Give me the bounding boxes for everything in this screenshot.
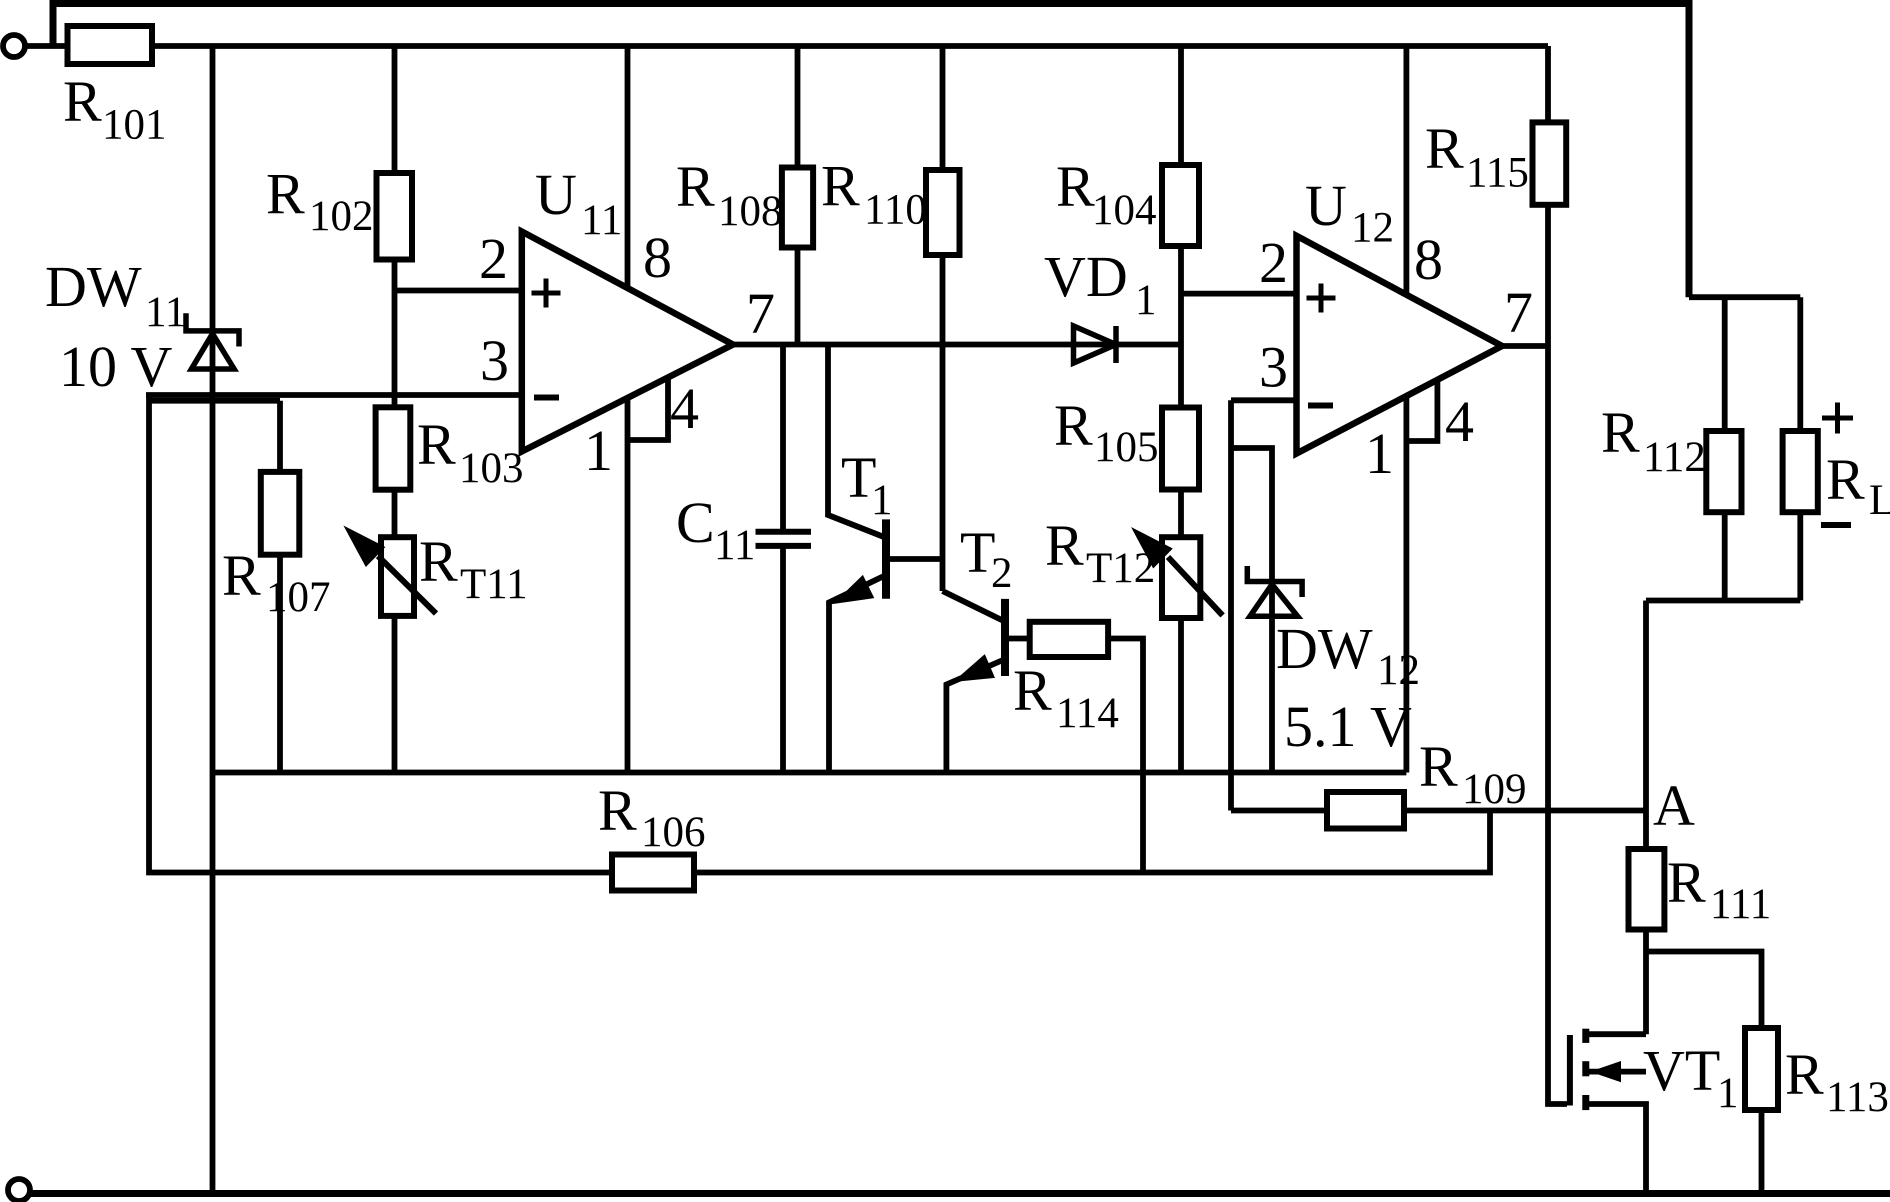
svg-text:U: U (535, 162, 577, 227)
svg-text:R: R (222, 543, 261, 608)
svg-text:R: R (1054, 393, 1093, 458)
svg-text:112: 112 (1643, 434, 1706, 481)
svg-text:4: 4 (1445, 389, 1474, 454)
node input terminal bottom (8, 1179, 30, 1201)
wire U12 pin2 (1181, 291, 1297, 297)
wire R114 run (1108, 639, 1143, 873)
svg-text:DW: DW (1276, 616, 1373, 681)
channel stub body (1582, 1061, 1589, 1076)
resistor R113 (1745, 1028, 1778, 1110)
svg-text:8: 8 (1414, 227, 1443, 292)
svg-text:11: 11 (145, 289, 186, 336)
svg-text:R: R (1785, 1042, 1824, 1107)
svg-text:R: R (1045, 513, 1084, 578)
svg-text:1: 1 (1135, 277, 1157, 324)
wire T2 base (1005, 636, 1030, 642)
wire ground bus (213, 770, 1407, 776)
svg-text:1: 1 (584, 418, 613, 483)
wire R107 DW11 link (149, 398, 280, 404)
resistor R102 (377, 173, 413, 260)
wire T2 collector (943, 591, 1004, 621)
wire R109 run (1231, 808, 1646, 814)
wire U11 pin3 (146, 392, 522, 398)
wire T1 collector (828, 345, 884, 538)
gate bar (1567, 1035, 1573, 1106)
wire top rail (53, 4, 1689, 298)
wire VT1 source (1586, 1104, 1646, 1194)
svg-text:R: R (419, 529, 458, 594)
wire T1 base (886, 556, 943, 562)
wire U12 pin8 (1404, 46, 1410, 294)
svg-text:R: R (63, 69, 102, 134)
svg-text:12: 12 (1351, 205, 1394, 252)
resistor R103 (376, 407, 411, 489)
svg-text:7: 7 (746, 281, 775, 346)
svg-text:113: 113 (1826, 1074, 1889, 1121)
transistor Q2 T2 base bar (1001, 599, 1009, 676)
svg-text:A: A (1653, 773, 1695, 838)
node input terminal top (3, 35, 25, 57)
wire U12 output (1502, 343, 1548, 349)
svg-text:115: 115 (1466, 150, 1529, 197)
VT1 body arrow (1590, 1061, 1621, 1082)
thermistor RT11 box (381, 537, 414, 616)
wire C11 upper (780, 345, 786, 530)
wire bottom rail (30, 1190, 1890, 1197)
MOSFET VT1 (1570, 1029, 1646, 1110)
wire input rail y46 (25, 43, 1548, 49)
wire U12 pin3 (1231, 397, 1297, 403)
wire U12 pin4 stub (1406, 380, 1437, 441)
wire R115 gate column (1548, 46, 1567, 1104)
svg-text:VT: VT (1643, 1038, 1720, 1103)
svg-text:R: R (1425, 116, 1464, 181)
wire DW11 branch (210, 46, 216, 1194)
op-amp U2 U12 (1297, 236, 1503, 454)
svg-text:DW: DW (45, 254, 142, 319)
diode VD1 (1074, 326, 1117, 363)
svg-text:VD: VD (1044, 244, 1128, 309)
wire T2 emitter (946, 660, 1003, 773)
wire U11 pin1 (625, 397, 631, 773)
plus U12 (1307, 296, 1336, 301)
body line (1589, 1069, 1646, 1075)
svg-text:C: C (676, 490, 715, 555)
svg-text:101: 101 (102, 102, 167, 149)
svg-text:11: 11 (714, 522, 755, 569)
resistor R101 (68, 26, 153, 64)
svg-text:R: R (598, 778, 637, 843)
svg-text:R: R (1826, 447, 1865, 512)
wire U12 feedback drop (1228, 400, 1234, 810)
wire C11 lower (780, 549, 786, 773)
wire U11 output (733, 342, 1181, 348)
svg-text:R: R (676, 154, 715, 219)
wire DW12 jog (1231, 448, 1272, 773)
svg-text:12: 12 (1377, 647, 1420, 694)
svg-text:10 V: 10 V (59, 334, 172, 399)
wire R112 branch (1722, 297, 1728, 600)
resistor R107 (261, 472, 300, 555)
svg-text:114: 114 (1056, 690, 1119, 737)
resistor R114 (1030, 622, 1108, 657)
transistor Q1 T1 base bar (882, 519, 890, 598)
svg-text:107: 107 (266, 574, 331, 621)
svg-text:111: 111 (1710, 881, 1771, 928)
svg-text:R: R (1601, 400, 1640, 465)
wire top right link (1689, 294, 1800, 300)
svg-text:3: 3 (480, 328, 509, 393)
zener diode DW11 (186, 313, 239, 369)
svg-text:2: 2 (1259, 230, 1288, 295)
plus RL (1822, 416, 1853, 421)
resistor R112 (1706, 431, 1741, 512)
resistor R111 (1629, 849, 1665, 930)
op-amp U1 U11 (522, 232, 733, 452)
svg-text:T12: T12 (1086, 545, 1155, 592)
wire U11 pin4 stub (628, 377, 669, 440)
transistor T2 emitter arrow (953, 654, 995, 682)
svg-text:103: 103 (459, 445, 524, 492)
resistor R105 (1162, 408, 1199, 490)
svg-text:8: 8 (643, 225, 672, 290)
minus RL (1821, 522, 1851, 528)
channel stub source (1582, 1095, 1589, 1110)
thermistor RT11 arrow (378, 556, 436, 614)
svg-text:R: R (417, 412, 456, 477)
resistor R108 (782, 168, 813, 248)
resistor R110 (926, 170, 960, 255)
svg-text:U: U (1305, 173, 1347, 238)
wire U12 pin1 (1404, 396, 1410, 773)
wire left feedback R106 run (149, 395, 1490, 873)
svg-text:R: R (266, 162, 305, 227)
svg-text:R: R (1667, 850, 1706, 915)
wire R107 branch (277, 401, 283, 773)
svg-text:108: 108 (718, 188, 783, 235)
op-amp and load polarity marks (532, 279, 1854, 526)
wire U11 pin8 (625, 46, 631, 289)
channel stub drain (1582, 1029, 1589, 1043)
svg-text:1: 1 (1717, 1070, 1739, 1117)
svg-text:104: 104 (1092, 187, 1157, 234)
svg-text:102: 102 (309, 193, 374, 240)
resistor R109 (1327, 792, 1404, 829)
svg-text:106: 106 (641, 809, 706, 856)
svg-text:T11: T11 (460, 561, 528, 608)
wire R110 branch (940, 46, 946, 591)
wire load bottom (1646, 598, 1800, 604)
zener diode DW12 (1247, 566, 1302, 616)
svg-text:109: 109 (1462, 766, 1527, 813)
svg-text:11: 11 (581, 197, 622, 244)
thermistor RT12 box (1162, 537, 1200, 618)
svg-text:R: R (1056, 154, 1095, 219)
wire RL branch (1797, 297, 1803, 600)
transistor T1 emitter arrow (833, 575, 874, 604)
capacitor C11 plates (756, 532, 812, 546)
thermistor RT12 arrow (1168, 557, 1223, 615)
svg-text:R: R (1419, 734, 1458, 799)
svg-text:110: 110 (864, 187, 927, 234)
wire VT1 drain (1586, 1031, 1646, 1037)
minus U12 (1308, 403, 1333, 409)
svg-text:L: L (1869, 477, 1890, 524)
resistor R104 (1162, 165, 1199, 246)
minus U11 (534, 395, 559, 401)
svg-text:5.1 V: 5.1 V (1284, 694, 1412, 759)
svg-text:R: R (821, 154, 860, 219)
wire R104 R105 RT12 branch (1178, 46, 1184, 773)
wire R102 R103 RT11 branch (392, 46, 398, 773)
svg-text:1: 1 (871, 477, 893, 524)
resistor RL (1783, 431, 1818, 512)
svg-text:105: 105 (1094, 424, 1159, 471)
wire T1 emitter (829, 576, 884, 773)
svg-text:4: 4 (670, 376, 699, 441)
resistor R106 (612, 855, 694, 891)
svg-text:2: 2 (991, 550, 1013, 597)
svg-text:7: 7 (1504, 280, 1533, 345)
svg-text:1: 1 (1365, 421, 1394, 486)
plus U11 (532, 291, 561, 296)
svg-text:2: 2 (479, 226, 508, 291)
svg-text:R: R (1013, 658, 1052, 723)
resistor R115 (1533, 122, 1567, 204)
wire R108 branch (795, 46, 801, 345)
wire node A column (1643, 601, 1649, 1035)
wire U11 pin2 (395, 288, 522, 294)
svg-text:3: 3 (1259, 335, 1288, 400)
wire R113 branch (1646, 952, 1762, 1194)
